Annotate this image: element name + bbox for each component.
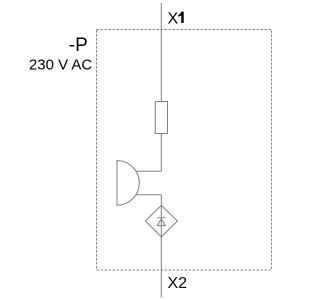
svg-text:X: X xyxy=(168,11,179,28)
svg-text:230 V AC: 230 V AC xyxy=(29,57,93,74)
svg-text:X2: X2 xyxy=(168,275,188,292)
svg-text:-P: -P xyxy=(69,35,88,56)
